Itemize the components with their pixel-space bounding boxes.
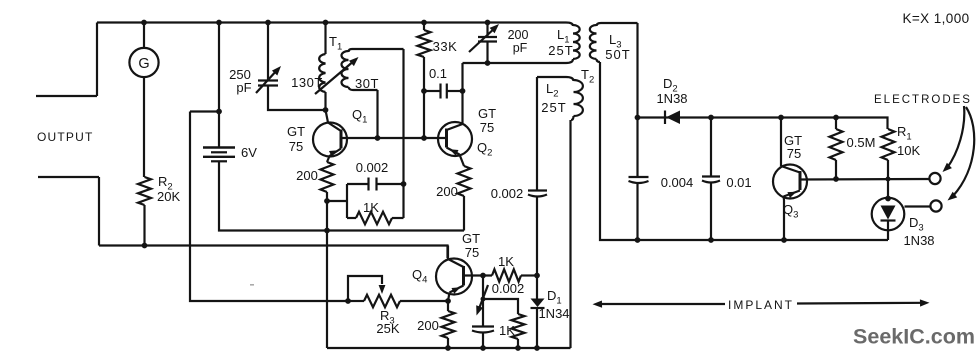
- resistor 1K (Q4 base) label: [498, 254, 514, 269]
- transistor Q3 label: [783, 202, 798, 221]
- capacitor 250pF label: [229, 67, 251, 95]
- node junction dot 0.01 top: [708, 115, 714, 121]
- wire network left link: [327, 200, 347, 202]
- node junction dot R3 left: [345, 298, 351, 304]
- capacitor 250pF arrow: [256, 66, 281, 93]
- node junction dot 1K/0.002/D1: [534, 273, 540, 279]
- potentiometer R3 wiper bracket: [348, 276, 382, 301]
- capacitor 200pF plates: [478, 37, 497, 42]
- node junction dot rail/250pF: [265, 20, 271, 26]
- resistor R3 label: [376, 308, 399, 336]
- battery 6V plates: [203, 148, 235, 162]
- inductor L3 50T: [590, 23, 638, 62]
- resistor R1 10K: [882, 129, 895, 198]
- svg-text:1N38: 1N38: [903, 233, 934, 248]
- wire 200pF bottom to L1 wire: [486, 42, 488, 64]
- capacitor 0.004 plates: [629, 177, 649, 183]
- node junction dot 0.004/rail: [635, 237, 641, 243]
- wire 30T top down to feedback network: [402, 49, 404, 184]
- transistor Q2 GT75 label: [478, 106, 496, 135]
- node junction dot rail/G: [141, 20, 147, 26]
- node junction dot 1K/rail: [515, 345, 521, 351]
- transistor Q4: [436, 259, 472, 295]
- wire top rail: [97, 21, 566, 23]
- svg-text:GT: GT: [478, 106, 496, 121]
- svg-text:T1: T1: [329, 34, 342, 53]
- wire Q3 base to electrode: [800, 178, 930, 181]
- wire 250pF bottom to node A: [268, 86, 325, 111]
- wire bottom rail left section: [327, 347, 571, 349]
- svg-text:6V: 6V: [241, 145, 257, 160]
- resistor 200 (Q2 emitter) label: [436, 184, 458, 199]
- svg-text:G: G: [138, 56, 149, 72]
- wire L1 bottom horizontal: [463, 62, 567, 64]
- wire 0.002 coupling to Q4 base node: [536, 197, 538, 276]
- transformer T1 label: [329, 34, 342, 53]
- capacitor 0.002 feedback label: [356, 160, 389, 175]
- inductor L2 25T: [537, 77, 583, 120]
- svg-text:Q3: Q3: [783, 202, 798, 221]
- node junction dot 0.01/rail: [708, 237, 714, 243]
- inductor T1 primary 130T: [319, 23, 325, 111]
- svg-text:1N38: 1N38: [656, 91, 687, 106]
- node junction dot 0.002 variable top: [481, 297, 486, 302]
- node junction dot D3 top: [885, 196, 891, 202]
- node junction dot Q3 emitter/rail: [781, 237, 787, 243]
- node junction dot R1/electrode wire: [886, 177, 891, 182]
- capacitor 200pF wire from rail: [486, 23, 488, 38]
- svg-text:130T: 130T: [291, 75, 323, 90]
- svg-text:10K: 10K: [897, 143, 920, 158]
- wire 0.004 to implant rail: [636, 183, 638, 240]
- resistor 200 (Q4 emitter) label: [417, 318, 439, 333]
- svg-text:0.002: 0.002: [356, 160, 389, 175]
- wire upper OUTPUT terminal lead: [36, 95, 97, 97]
- wire 0.01 to implant rail: [710, 183, 712, 241]
- diode D1 label: [538, 288, 569, 321]
- svg-text:20K: 20K: [157, 189, 180, 204]
- transistor Q1: [313, 123, 347, 157]
- wire 1K vertical to rail: [517, 339, 519, 348]
- wire D2 node to electrodes corner: [638, 118, 888, 130]
- wire D3 to implant rail end: [887, 230, 889, 240]
- node junction dot rail/battery branch: [216, 20, 222, 26]
- capacitor 250pF plates: [258, 81, 278, 86]
- node junction dot Q4 base: [480, 273, 486, 279]
- svg-text:200: 200: [508, 28, 529, 42]
- inductor L2 label: [541, 81, 566, 115]
- svg-text:30T: 30T: [355, 76, 379, 91]
- node junction dot 0.002/rail: [480, 345, 486, 351]
- resistor R2: [138, 177, 151, 205]
- svg-text:1K: 1K: [363, 200, 379, 215]
- svg-text:25T: 25T: [548, 43, 573, 58]
- resistor 1K feedback label: [363, 200, 379, 215]
- svg-text:OUTPUT: OUTPUT: [37, 130, 94, 144]
- wire lower OUTPUT terminal lead: [38, 176, 99, 178]
- electrode lower terminal: [930, 200, 941, 211]
- node ELECTRODES label: [874, 94, 972, 106]
- node junction dot Q1 emitter network: [324, 198, 330, 204]
- svg-text:33K: 33K: [433, 39, 458, 54]
- wire left vertical from rail to upper OUTPUT terminal: [96, 23, 98, 97]
- node junction dot 0.1/collector: [460, 88, 466, 94]
- node junction dot rail/33K: [421, 20, 427, 26]
- capacitor 0.1 wires: [424, 90, 463, 92]
- svg-text:Q2: Q2: [477, 140, 492, 159]
- svg-text:IMPLANT: IMPLANT: [728, 298, 794, 312]
- node junction dot D1/rail: [534, 345, 540, 351]
- node junction dot 200/bottom rail: [445, 345, 451, 351]
- svg-text:T2: T2: [581, 67, 594, 86]
- svg-text:0.01: 0.01: [726, 175, 751, 190]
- wire D1 to rail: [536, 308, 538, 348]
- wire battery node left leg: [190, 110, 219, 112]
- node OUTPUT label: [37, 130, 94, 144]
- wire R2 to ground rail: [143, 205, 145, 246]
- resistor R3 25K: [348, 295, 448, 307]
- svg-text:L2: L2: [546, 81, 559, 100]
- node junction dot rail/130T: [323, 20, 329, 26]
- svg-text:SeekIC.com: SeekIC.com: [853, 325, 975, 349]
- wire Q2 collector up to L1 wire: [461, 63, 463, 124]
- wire Q4 base to 1K: [464, 274, 493, 276]
- wire left branch down to R3 line: [190, 112, 348, 302]
- node A junction dot 130T/250pF/Q1 collector: [323, 107, 329, 113]
- node junction dot emitter rail: [324, 228, 330, 234]
- wire network left bracket: [346, 184, 348, 218]
- svg-text:GT: GT: [462, 231, 480, 246]
- wire Q3 emitter to rail: [782, 197, 785, 241]
- wire Q4 collector up to ground rail corner: [447, 246, 449, 260]
- resistor 1K (vertical): [512, 314, 525, 339]
- capacitor 0.1 plates: [441, 84, 447, 99]
- wire Q1 base to Q2 base: [341, 137, 447, 139]
- capacitor 0.002 coupling plates: [528, 191, 547, 197]
- svg-text:200: 200: [417, 318, 439, 333]
- svg-text:0.004: 0.004: [661, 175, 694, 190]
- svg-text:Q4: Q4: [412, 267, 427, 286]
- svg-text:D3: D3: [909, 215, 924, 234]
- resistor 1K (vertical) label: [499, 323, 515, 338]
- diode D2 1N38: [665, 111, 680, 125]
- node junction dot battery top node: [216, 109, 222, 115]
- inductor T1 primary label 130T: [291, 75, 323, 90]
- wire 0.002 variable to rail: [482, 333, 484, 349]
- wire Q4 200 bottom to rail: [447, 338, 449, 348]
- node junction dot network/30T top: [401, 181, 407, 187]
- diode D1 1N34: [531, 299, 545, 309]
- svg-text:ELECTRODES: ELECTRODES: [874, 94, 972, 106]
- wire Q4 emitter down: [448, 293, 450, 312]
- resistor 200 (Q4 emitter): [442, 311, 455, 338]
- node junction dot 33K/0.1 tap: [421, 88, 427, 94]
- wire L2 bottom down to bottom rail: [569, 120, 571, 348]
- capacitor 0.002 coupling label: [491, 186, 524, 201]
- transistor Q3: [773, 165, 807, 199]
- node junction dot rail/200pF: [485, 20, 491, 26]
- resistor 33K: [418, 23, 431, 139]
- svg-text:K=X 1,000: K=X 1,000: [902, 11, 969, 26]
- node junction dot R3/emitter: [445, 298, 451, 304]
- inductor L1 25T: [566, 23, 580, 64]
- wire node A to Q1 collector: [326, 110, 329, 123]
- diode D3 label: [903, 215, 934, 248]
- svg-text:75: 75: [480, 120, 494, 135]
- wire 30T bottom to Q1 base wire: [376, 90, 378, 138]
- node junction dot L3/D2 wire: [635, 115, 641, 121]
- transformer T1 tuning arrow: [315, 57, 359, 94]
- node IMPLANT span arrows: [593, 298, 930, 312]
- capacitor 0.002 feedback plates: [369, 178, 377, 191]
- svg-text:D1: D1: [547, 288, 562, 307]
- svg-text:0.002: 0.002: [491, 186, 524, 201]
- transistor Q4 GT75 label: [462, 231, 480, 260]
- capacitor 0.1 label: [429, 66, 447, 81]
- svg-text:75: 75: [465, 245, 479, 260]
- svg-text:1K: 1K: [498, 254, 514, 269]
- svg-text:50T: 50T: [605, 47, 630, 62]
- svg-text:GT: GT: [287, 124, 305, 139]
- capacitor 0.01 plates: [702, 177, 720, 183]
- resistor R2 label: [157, 174, 180, 204]
- capacitor 0.002 feedback wires: [347, 183, 404, 185]
- capacitor 0.002 variable label: [492, 281, 525, 296]
- wire Q3 collector up: [780, 118, 782, 167]
- inductor L1 label: [548, 27, 573, 58]
- transistor Q1 GT75 label: [287, 124, 305, 154]
- svg-text:200: 200: [436, 184, 458, 199]
- potentiometer R3 wiper arrow: [379, 285, 386, 294]
- svg-text:25T: 25T: [541, 100, 566, 115]
- svg-text:R1: R1: [897, 124, 912, 143]
- wire Q4 base node down: [482, 276, 484, 300]
- battery 6V label: [241, 145, 257, 160]
- capacitor 0.01 label: [726, 175, 751, 190]
- node scan speck: [250, 284, 254, 286]
- inductor T1 secondary 30T: [342, 49, 404, 90]
- resistor 200 (Q2 emitter): [458, 166, 471, 196]
- resistor 0.5M label: [847, 135, 876, 150]
- resistor R1 label: [897, 124, 920, 158]
- capacitor 0.004 label: [661, 175, 694, 190]
- capacitor 200pF arrow: [469, 24, 499, 52]
- wire network right bracket: [402, 184, 404, 218]
- capacitor 250pF wire from rail: [267, 23, 269, 81]
- svg-text:pF: pF: [513, 41, 528, 55]
- resistor 1K feedback: [347, 212, 404, 224]
- node junction dot R2/ground rail: [142, 243, 148, 249]
- resistor 33K label: [433, 39, 458, 54]
- node K multiplier note: [902, 11, 969, 26]
- node junction dot 33K/base wire: [421, 135, 427, 141]
- node junction dot Q3 collector: [778, 115, 784, 121]
- transformer T2 label: [581, 67, 594, 86]
- node junction dot 30T/base wire: [375, 135, 381, 141]
- wire Q1 200 bottom to network node: [326, 192, 328, 201]
- transistor Q4 label: [412, 267, 427, 286]
- wire Q2 emitter to 200 resistor: [460, 155, 465, 167]
- transistor Q2 label: [477, 140, 492, 159]
- inductor T1 secondary label 30T: [355, 76, 379, 91]
- electrode pointer arrow upper: [943, 106, 965, 172]
- meter G: [129, 48, 158, 77]
- capacitor 0.002 variable wire: [482, 299, 484, 327]
- resistor 200 (Q1 emitter): [321, 162, 334, 192]
- svg-text:1N34: 1N34: [538, 306, 569, 321]
- wire rail down to battery top node: [218, 23, 220, 148]
- wire Q2 200 bottom to emitter rail: [463, 196, 465, 231]
- electrode pointer arrow lower: [948, 107, 975, 201]
- resistor 1K (Q4 base): [492, 269, 537, 281]
- wire Q1 emitter to 200 resistor: [327, 156, 330, 162]
- inductor L3 label: [605, 32, 630, 62]
- wire L3 bottom down to implant rail: [600, 62, 888, 240]
- wire to 1K vertical: [483, 299, 518, 314]
- wire Q1 emitter node down to bottom rail: [326, 201, 328, 348]
- svg-text:Q1: Q1: [352, 107, 367, 126]
- wire lower electrode to D3: [905, 205, 931, 207]
- capacitor 200pF label: [508, 28, 529, 55]
- transistor Q3 GT75 label: [784, 133, 802, 161]
- resistor 0.5M: [830, 118, 843, 180]
- node junction dot 200pF/L1 wire: [485, 60, 491, 66]
- wire lower OUTPUT vertical down to ground rail: [98, 177, 100, 246]
- svg-text:pF: pF: [236, 80, 251, 95]
- wire G to R2: [143, 77, 145, 177]
- svg-text:0.002: 0.002: [492, 281, 525, 296]
- svg-text:0.1: 0.1: [429, 66, 447, 81]
- capacitor 0.002 variable arrow: [476, 285, 488, 316]
- transistor Q1 label: [352, 107, 367, 126]
- wire battery bottom to emitter rail: [219, 161, 464, 230]
- electrode upper terminal: [929, 173, 940, 184]
- node SeekIC watermark: [853, 325, 975, 349]
- capacitor 0.01 wire top: [710, 118, 712, 177]
- node junction dot 0.5M top: [833, 115, 839, 121]
- svg-text:75: 75: [787, 146, 801, 161]
- diode D3 1N38: [872, 198, 905, 231]
- svg-text:1K: 1K: [499, 323, 515, 338]
- svg-text:200: 200: [296, 168, 318, 183]
- svg-text:25K: 25K: [376, 321, 399, 336]
- diode D2 label: [656, 76, 687, 106]
- svg-text:75: 75: [289, 139, 303, 154]
- wire L3 top down to D2 node: [636, 23, 638, 177]
- node junction dot 0.5M bottom: [833, 176, 839, 182]
- meter G wire from rail: [143, 23, 145, 49]
- wire L2 top down to 0.002 coupling: [536, 77, 538, 190]
- wire ground rail to Q4 collector: [99, 246, 448, 259]
- resistor 200 (Q1 emitter) label: [296, 168, 318, 183]
- transistor Q2: [438, 122, 472, 156]
- capacitor 0.002 variable plates: [472, 327, 494, 333]
- svg-text:0.5M: 0.5M: [847, 135, 876, 150]
- diode D1 wire from base node: [536, 276, 538, 299]
